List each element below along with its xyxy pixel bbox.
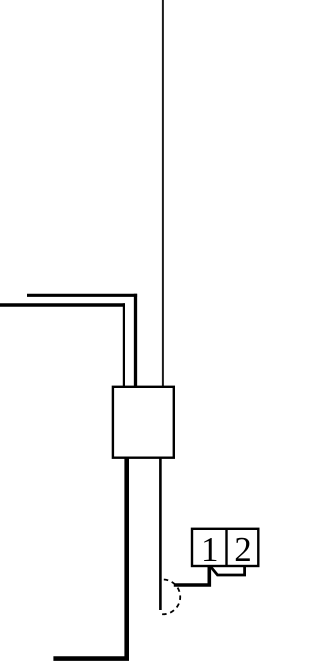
component: connector keyed tab below housing bbox=[211, 567, 245, 576]
symbol: dashed loop arc around antenna cable end bbox=[159, 580, 180, 615]
wire: outer cable horizontal segment bbox=[27, 294, 137, 297]
component: connector housing (2-pin) bbox=[192, 529, 258, 566]
wire: inner cable vertical segment into box bbox=[123, 303, 125, 387]
svg-text:1: 1 bbox=[201, 530, 219, 569]
svg-text:2: 2 bbox=[234, 530, 252, 569]
wire: connector divider between pin 1 and pin 2 bbox=[225, 529, 227, 566]
wire: outer cable vertical segment into box bbox=[134, 294, 137, 387]
wire: thick cable leaving box bottom, down and left along floor bbox=[53, 458, 126, 659]
wire: antenna lead-in (thin vertical from top into amplifier box) bbox=[162, 0, 164, 387]
wire: antenna cable from box bottom down to loop bbox=[159, 458, 162, 610]
wire: lead from connector pin 1 down then left to loop bbox=[174, 566, 210, 585]
wire: inner cable horizontal segment bbox=[0, 303, 125, 306]
component: amplifier/junction box bbox=[113, 387, 174, 458]
